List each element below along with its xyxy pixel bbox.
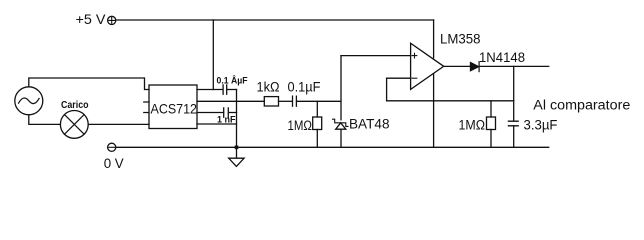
wire: 3.3uF to 0V rail <box>513 126 515 148</box>
svg-text:ACS712: ACS712 <box>151 100 198 116</box>
wire: op-amp output <box>444 65 471 67</box>
wire: VCC pin to decoupling cap <box>197 89 223 91</box>
wire: diode to output node <box>479 65 549 67</box>
ACS712 box <box>149 85 197 129</box>
wire: FILTER pin to 1nF cap <box>197 112 224 114</box>
svg-text:1 nF: 1 nF <box>217 114 236 125</box>
resistor R1 1k <box>264 97 278 106</box>
wire: op-amp -input with feedback drop <box>387 78 411 101</box>
lamp Carico <box>60 111 88 139</box>
wire: lamp to ACS712 pin4 <box>88 123 149 125</box>
wire: feedback line <box>387 100 514 102</box>
resistor R2 1M left <box>313 117 322 130</box>
wire: output node drop to RC <box>513 66 515 121</box>
0V terminal <box>108 143 116 151</box>
svg-text:BAT48: BAT48 <box>349 117 390 132</box>
capacitor 1nF <box>224 108 229 117</box>
capacitor C3 3.3uF <box>508 121 518 126</box>
wire: op-amp V+ supply <box>433 20 435 58</box>
svg-text:Carico: Carico <box>61 100 89 111</box>
node: junction dot on 0V rail <box>235 146 239 150</box>
diode D2 1N4148 <box>471 63 479 71</box>
wire: 1M right hang <box>490 101 492 117</box>
wire: ground collector vertical <box>236 90 238 148</box>
svg-text:Al comparatore: Al comparatore <box>533 97 630 112</box>
resistor R3 1M right <box>487 117 496 130</box>
AC source V1 <box>15 87 43 115</box>
svg-text:LM358: LM358 <box>440 32 481 47</box>
wire: GND pin to ground drop <box>197 123 237 125</box>
wire: 1M right to 0V rail <box>490 130 492 148</box>
pin stubs left <box>144 102 149 113</box>
wire: op-amp V- to 0V rail <box>433 74 435 148</box>
capacitor 0.1uF (decoupling) <box>223 85 227 94</box>
svg-text:1N4148: 1N4148 <box>479 50 525 65</box>
wire: VIOUT pin to 1k resistor <box>197 100 264 102</box>
wire: +5V branch down to ACS712 VCC <box>212 20 214 90</box>
ground symbol <box>229 147 244 166</box>
wire: upper loop to ACS712 pin1 <box>29 78 149 90</box>
+5V rail wire <box>116 19 434 21</box>
svg-text:0 V: 0 V <box>104 156 124 171</box>
svg-text:1kΩ: 1kΩ <box>257 79 280 94</box>
svg-text:3.3µF: 3.3µF <box>524 118 558 133</box>
svg-text:0.1µF: 0.1µF <box>288 79 321 94</box>
0V rail wire <box>116 146 549 148</box>
svg-text:1MΩ: 1MΩ <box>459 118 486 133</box>
svg-text:1MΩ: 1MΩ <box>288 118 313 133</box>
capacitor 0.1uF series <box>293 96 297 106</box>
svg-text:+5 V: +5 V <box>76 12 106 27</box>
wire: op-amp +input <box>341 55 411 57</box>
wire: resistor to series cap <box>279 100 293 102</box>
wire: AC source to lamp <box>29 115 61 125</box>
op-amp U1 LM358 <box>411 43 444 89</box>
+5V terminal <box>108 16 116 24</box>
wire: 1M left to 0V rail <box>316 130 318 148</box>
wire: series cap to node A <box>297 100 341 102</box>
wire: branch down to 1M left <box>316 101 318 117</box>
wire: node A vertical (cap node to +in and BAT48) <box>340 56 342 120</box>
diode D1 BAT48 schottky <box>336 123 346 129</box>
svg-text:0.1 ÂµF: 0.1 ÂµF <box>217 75 248 87</box>
